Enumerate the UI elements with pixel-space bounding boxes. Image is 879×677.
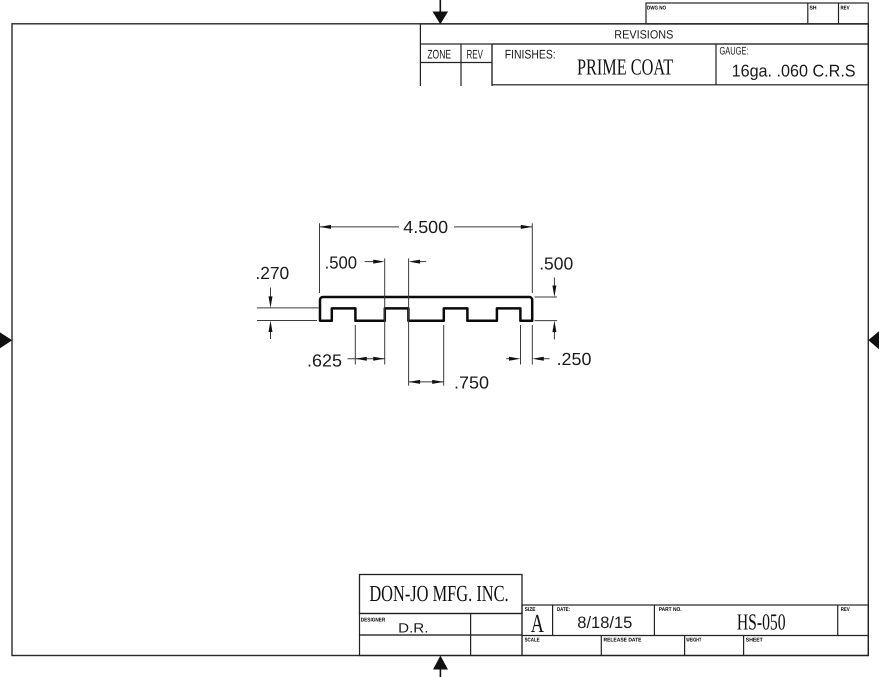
svg-text:.270: .270	[255, 263, 289, 283]
svg-text:ZONE: ZONE	[427, 48, 451, 62]
svg-text:SH: SH	[810, 6, 817, 12]
dim .270 up arrow	[269, 321, 273, 340]
dim 4.500 dimension line	[320, 226, 400, 228]
svg-text:FINISHES:: FINISHES:	[505, 48, 556, 62]
dim .270 ext line bottom	[257, 320, 317, 322]
svg-text:.500: .500	[539, 254, 573, 274]
title block left bottom row	[360, 635, 523, 656]
rev divider	[838, 3, 840, 24]
part cross-section outline	[320, 297, 532, 321]
svg-text:.625: .625	[307, 351, 342, 371]
dwg-no strip box	[646, 3, 868, 24]
dim .270 down arrow	[269, 288, 273, 308]
svg-text:SHEET: SHEET	[746, 637, 764, 643]
svg-text:HS-050: HS-050	[737, 609, 786, 634]
bottom row divider: release date	[600, 636, 602, 656]
svg-text:DWG NO: DWG NO	[647, 6, 667, 12]
dim .500 right ext line top	[535, 296, 558, 298]
svg-text:A: A	[531, 609, 544, 638]
dim 4.500 arrows	[320, 225, 332, 229]
svg-text:PART NO.: PART NO.	[659, 607, 682, 613]
svg-text:DON-JO MFG. INC.: DON-JO MFG. INC.	[369, 581, 508, 606]
dim .500 right bottom arrow	[552, 321, 556, 340]
finishes box	[492, 44, 868, 85]
dim .750 dim line w/ arrows	[409, 380, 444, 384]
left center arrow	[0, 332, 12, 348]
dim .750 ext line right (x=443.9)	[443, 325, 445, 386]
top center arrow	[433, 0, 449, 24]
svg-text:SCALE: SCALE	[525, 637, 540, 643]
svg-text:DESIGNER: DESIGNER	[361, 618, 386, 624]
svg-text:8/18/15: 8/18/15	[577, 614, 632, 632]
svg-text:.500: .500	[325, 253, 358, 273]
dim .625 dim line w/ arrows	[348, 357, 385, 361]
dim .250 right arrow	[532, 357, 549, 361]
dim .270 ext line top	[257, 307, 319, 309]
dim .250 ext line left (x=520.6)	[520, 325, 522, 365]
svg-text:4.500: 4.500	[403, 217, 448, 237]
svg-text:REVISIONS: REVISIONS	[614, 27, 673, 41]
bottom row divider: sheet	[743, 636, 745, 656]
designer row box	[360, 614, 523, 636]
dim 4.500 extension line left	[319, 223, 321, 293]
dim .500 right top arrow	[552, 278, 556, 298]
svg-text:D.R.: D.R.	[398, 620, 428, 635]
dim .250 left arrow	[506, 357, 520, 361]
dim .500 top right arrow	[409, 260, 427, 264]
svg-text:PRIME COAT: PRIME COAT	[577, 54, 673, 79]
designer row divider	[470, 614, 472, 656]
bottom center arrow	[433, 656, 448, 677]
title block right box	[522, 605, 868, 656]
dim 4.500 extension line right	[531, 223, 533, 293]
dim .500 right ext line bottom	[535, 320, 558, 322]
dim .500 top ext line right (x=408.5)	[408, 258, 410, 385]
svg-text:DATE:: DATE:	[557, 607, 570, 613]
svg-text:.750: .750	[454, 372, 489, 392]
svg-text:REV: REV	[467, 48, 484, 62]
size cell divider	[552, 605, 554, 636]
svg-text:GAUGE:: GAUGE:	[720, 46, 749, 58]
title block: company box	[360, 575, 523, 614]
svg-text:16ga. .060 C.R.S: 16ga. .060 C.R.S	[732, 61, 856, 80]
svg-text:WEIGHT: WEIGHT	[686, 637, 701, 643]
dim .625 ext line left (x=355.4)	[354, 325, 356, 365]
zone/rev column lines	[419, 44, 421, 86]
rev cell divider	[837, 605, 839, 636]
revisions header box	[420, 24, 868, 44]
sh divider	[807, 3, 809, 24]
dim .250 ext line right (x=532.3)	[531, 325, 533, 365]
part-no cell divider	[653, 605, 655, 636]
dim .500 top ext line left (x=384.9)	[384, 258, 386, 364]
svg-text:REV: REV	[841, 6, 850, 12]
zone/rev header underline	[420, 62, 492, 64]
svg-text:REV: REV	[841, 607, 850, 613]
svg-text:RELEASE DATE: RELEASE DATE	[604, 637, 642, 643]
gauge divider	[715, 44, 717, 85]
right center arrow	[868, 331, 879, 349]
svg-text:.250: .250	[557, 349, 592, 369]
dim .500 top left arrow	[365, 260, 385, 264]
bottom row divider: weight	[684, 636, 686, 656]
right rows divider	[522, 635, 868, 637]
